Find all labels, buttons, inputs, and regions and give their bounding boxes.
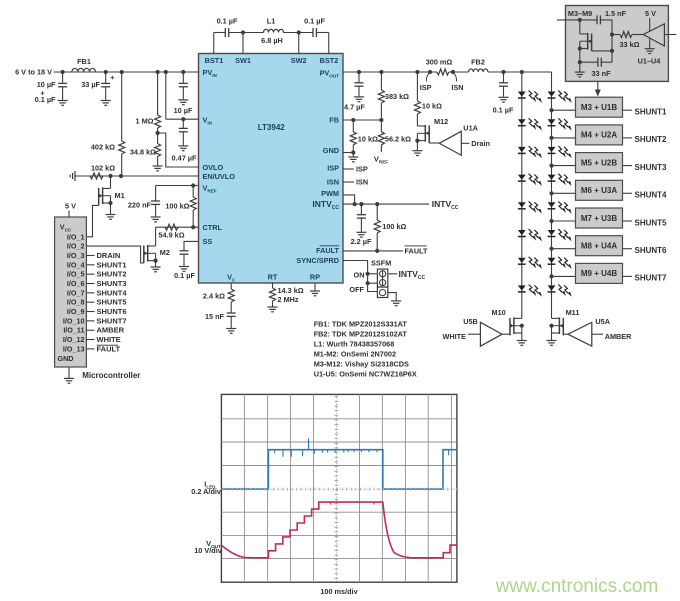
LED D8a <box>518 285 526 290</box>
svg-text:5 V: 5 V <box>645 9 656 18</box>
svg-text:INTVCC: INTVCC <box>399 269 426 281</box>
svg-text:WHITE: WHITE <box>442 332 466 341</box>
ground (sideways) <box>74 171 76 181</box>
microcontroller box <box>55 217 87 367</box>
svg-text:6 V to 18 V: 6 V to 18 V <box>15 68 52 77</box>
svg-text:M1-M2: OnSemi 2N7002: M1-M2: OnSemi 2N7002 <box>314 350 396 359</box>
capacitor 33nF <box>580 61 598 63</box>
svg-text:I/O_4: I/O_4 <box>67 260 85 269</box>
svg-text:SSFM: SSFM <box>371 258 391 267</box>
svg-text:4.7 µF: 4.7 µF <box>344 103 365 112</box>
resistor 56.2k <box>380 120 382 132</box>
svg-text:ON: ON <box>354 271 365 280</box>
svg-text:100 ms/div: 100 ms/div <box>320 587 358 596</box>
wire shunt tap 2 <box>549 136 553 140</box>
svg-text:U1A: U1A <box>463 123 478 132</box>
op-amp U1-U4 buffer <box>643 24 664 46</box>
transistor M10 <box>514 317 522 319</box>
svg-text:100 kΩ: 100 kΩ <box>382 222 406 231</box>
svg-text:SHUNT6: SHUNT6 <box>635 246 668 255</box>
transistor M12 <box>417 125 425 127</box>
node SHUNT3 <box>623 165 633 167</box>
ground RP <box>314 283 316 291</box>
svg-text:M5 + U2B: M5 + U2B <box>581 158 617 167</box>
capacitor 10uF/0.1uF input <box>58 82 67 84</box>
svg-text:FB: FB <box>329 116 339 125</box>
svg-text:I/O_2: I/O_2 <box>67 242 85 251</box>
svg-text:+: + <box>110 73 115 82</box>
svg-text:U5A: U5A <box>595 317 610 326</box>
node SHUNT4 (micro) <box>86 292 94 294</box>
ferrite bead FB2 <box>469 69 489 72</box>
inductor L1 6.8uH <box>264 29 284 32</box>
chart center horizontal graticule <box>221 488 457 490</box>
svg-text:DRAIN: DRAIN <box>97 251 121 260</box>
capacitor 220nF <box>155 186 157 202</box>
wire PWM to INTVCC <box>343 195 355 204</box>
IC LT3942 <box>199 54 344 284</box>
svg-text:1.5 nF: 1.5 nF <box>605 9 627 18</box>
svg-text:L1: L1 <box>267 17 276 26</box>
wire M2 gate to I/O_2 <box>86 246 143 263</box>
svg-text:383 kΩ: 383 kΩ <box>385 92 409 101</box>
svg-text:VREF: VREF <box>374 154 388 164</box>
svg-text:M9 + U4B: M9 + U4B <box>581 269 617 278</box>
node AMBER <box>592 333 603 335</box>
ground GND pin <box>343 152 353 154</box>
svg-text:EN/UVLO: EN/UVLO <box>203 172 236 181</box>
svg-text:ISN: ISN <box>451 83 463 92</box>
resistor 100k (FAULT pullup) <box>375 202 379 206</box>
resistor 10k (ISP) <box>416 72 418 101</box>
LED D3a <box>518 147 526 152</box>
node SHUNT6 (micro) <box>86 311 94 313</box>
trace ILED (blue) <box>221 450 457 489</box>
LED D6a <box>518 230 526 235</box>
svg-text:2.2 µF: 2.2 µF <box>351 237 372 246</box>
svg-text:FAULT: FAULT <box>316 246 340 255</box>
svg-text:FB1: FB1 <box>77 57 91 66</box>
node SHUNT7 (micro) <box>86 320 94 322</box>
node WHITE <box>468 333 480 335</box>
svg-text:SHUNT1: SHUNT1 <box>97 260 127 269</box>
LED D5b <box>548 202 556 207</box>
svg-text:10 kΩ: 10 kΩ <box>422 101 442 110</box>
node ISP kelvin <box>428 70 432 74</box>
trace VOUT (red) <box>221 502 457 558</box>
svg-text:SW1: SW1 <box>235 56 251 65</box>
svg-text:M10: M10 <box>491 308 505 317</box>
node SHUNT4 <box>623 192 633 194</box>
node SHUNT1 (micro) <box>86 264 94 266</box>
svg-text:SHUNT4: SHUNT4 <box>635 191 668 200</box>
LED D4b <box>548 175 556 180</box>
capacitor 0.1uF (SS) <box>184 241 199 250</box>
svg-text:2.4 kΩ: 2.4 kΩ <box>203 292 225 301</box>
LED D4a <box>518 175 526 180</box>
svg-text:0.1 µF: 0.1 µF <box>304 17 325 26</box>
svg-text:1 MΩ: 1 MΩ <box>135 117 153 126</box>
node SHUNT1 <box>623 109 633 111</box>
wire PVOUT rail <box>343 71 437 73</box>
svg-text:10 µF: 10 µF <box>174 106 193 115</box>
shunt block M8+U <box>576 236 623 256</box>
svg-text:M12: M12 <box>434 117 448 126</box>
shunt block M9+U <box>576 263 623 283</box>
svg-text:I/O_6: I/O_6 <box>67 279 85 288</box>
svg-text:www.cntronics.com: www.cntronics.com <box>495 576 659 597</box>
node ISN stub <box>343 181 354 183</box>
op-amp U5A buffer <box>563 333 568 335</box>
resistor 402k <box>120 70 124 74</box>
svg-text:M8 + U4A: M8 + U4A <box>581 242 617 251</box>
svg-text:Microcontroller: Microcontroller <box>82 371 140 380</box>
wire FAULT <box>343 250 403 252</box>
svg-text:0.1 µF: 0.1 µF <box>493 106 514 115</box>
svg-text:ISP: ISP <box>327 164 339 173</box>
svg-text:0.1 µF: 0.1 µF <box>174 271 195 280</box>
svg-text:M7 + U3B: M7 + U3B <box>581 214 617 223</box>
resistor 33k <box>610 32 614 36</box>
resistor 34.8k <box>157 133 159 144</box>
svg-text:U5B: U5B <box>463 317 478 326</box>
svg-text:SW2: SW2 <box>291 56 307 65</box>
node A divider mid <box>156 131 160 135</box>
svg-text:FB2: FB2 <box>471 58 485 67</box>
wire M1 gate to I/O_1 <box>86 205 98 236</box>
shunt block M5+U <box>576 153 623 173</box>
svg-text:0.1 µF: 0.1 µF <box>217 17 238 26</box>
svg-text:SHUNT5: SHUNT5 <box>97 298 127 307</box>
LED D7a <box>518 258 526 263</box>
node SHUNT6 <box>623 248 633 250</box>
svg-text:M3–M9: M3–M9 <box>568 9 592 18</box>
LED D7b <box>548 258 556 263</box>
wire jumper to INTVCC <box>388 273 398 275</box>
LED D8b <box>548 285 556 290</box>
svg-text:Drain: Drain <box>471 139 490 148</box>
shunt block M7+U <box>576 208 623 228</box>
svg-text:M6 + U3A: M6 + U3A <box>581 186 617 195</box>
resistor 2.4k + capacitor 15nF (VC) <box>230 283 232 289</box>
wire shunt tap 1 <box>549 108 553 112</box>
shunt block M6+U <box>576 180 623 200</box>
svg-text:10 kΩ: 10 kΩ <box>358 134 378 143</box>
svg-text:SHUNT2: SHUNT2 <box>97 270 127 279</box>
capacitor 0.1uF (BST2) <box>312 28 314 37</box>
svg-text:300 mΩ: 300 mΩ <box>426 58 453 67</box>
svg-text:33 µF: 33 µF <box>81 80 100 89</box>
ferrite bead FB1 <box>72 68 96 72</box>
svg-text:M3-M12: Vishay Si2318CDS: M3-M12: Vishay Si2318CDS <box>314 360 409 369</box>
svg-text:10 V/div: 10 V/div <box>194 546 223 555</box>
svg-text:BST1: BST1 <box>205 56 224 65</box>
svg-text:SHUNT4: SHUNT4 <box>97 288 128 297</box>
transistor M11 <box>552 317 560 319</box>
svg-text:SHUNT1: SHUNT1 <box>635 108 668 117</box>
svg-text:CTRL: CTRL <box>203 223 223 232</box>
svg-text:SHUNT3: SHUNT3 <box>97 279 127 288</box>
LED D5a <box>518 202 526 207</box>
svg-text:ISP: ISP <box>420 83 432 92</box>
svg-text:M4 + U2A: M4 + U2A <box>581 131 617 140</box>
svg-text:SHUNT3: SHUNT3 <box>635 163 668 172</box>
wire gate net <box>592 50 612 52</box>
svg-text:SHUNT7: SHUNT7 <box>635 274 668 283</box>
svg-text:0.47 µF: 0.47 µF <box>172 154 197 163</box>
node SHUNT3 (micro) <box>86 283 94 285</box>
svg-text:SHUNT5: SHUNT5 <box>635 218 668 227</box>
svg-text:ISP: ISP <box>356 165 368 174</box>
svg-text:RP: RP <box>310 273 320 282</box>
LED D6b <box>548 230 556 235</box>
svg-text:I/O_8: I/O_8 <box>67 298 85 307</box>
svg-text:AMBER: AMBER <box>97 326 125 335</box>
node DRAIN (micro) <box>86 254 94 256</box>
svg-text:M2: M2 <box>160 248 170 257</box>
svg-text:0.2 A/div: 0.2 A/div <box>191 487 222 496</box>
svg-text:SHUNT6: SHUNT6 <box>97 307 127 316</box>
svg-text:I/O_7: I/O_7 <box>67 288 85 297</box>
svg-text:I/O_9: I/O_9 <box>67 307 85 316</box>
wire shunt tap 7 <box>549 274 553 278</box>
wire INTVCC <box>343 203 429 205</box>
svg-text:U1–U4: U1–U4 <box>638 57 662 66</box>
shunt block M3+U <box>576 97 623 117</box>
node AMBER (micro) <box>86 329 94 331</box>
svg-text:SHUNT2: SHUNT2 <box>635 135 668 144</box>
svg-text:SS: SS <box>203 237 213 246</box>
svg-text:I/O_5: I/O_5 <box>67 270 85 279</box>
resistor 100k (VREF-CTRL) <box>192 186 194 198</box>
transistor M2 <box>155 227 157 246</box>
wire gate input <box>557 19 597 21</box>
wire shunt tap 3 <box>549 164 553 168</box>
svg-text:SYNC/SPRD: SYNC/SPRD <box>296 256 339 265</box>
capacitor 0.47uF <box>181 117 185 121</box>
svg-text:I/O_10: I/O_10 <box>63 316 85 325</box>
svg-text:M11: M11 <box>566 308 580 317</box>
node FAULT (micro) <box>86 348 94 350</box>
wire CTRL <box>191 225 195 229</box>
svg-text:33 nF: 33 nF <box>591 69 611 78</box>
wire FB <box>343 119 381 121</box>
LED D1b <box>548 92 556 97</box>
wire BST1 riser <box>213 33 215 54</box>
svg-text:WHITE: WHITE <box>97 335 121 344</box>
transistor M3-M9 (rep) <box>579 20 581 34</box>
wire box to SHUNT1 arrow <box>597 81 599 90</box>
resistor 300mOhm sense <box>415 70 419 74</box>
svg-text:RT: RT <box>268 273 278 282</box>
resistor 1M <box>156 70 160 74</box>
node SHUNT5 <box>623 220 633 222</box>
chart frame <box>221 394 457 582</box>
svg-text:M1: M1 <box>115 191 125 200</box>
node SHUNT7 <box>623 275 633 277</box>
svg-text:U1-U5: OnSemi NC7WZ16P6X: U1-U5: OnSemi NC7WZ16P6X <box>314 370 417 379</box>
resistor 54.9k <box>165 224 178 230</box>
node Drain <box>461 142 469 144</box>
capacitor 1.5nF <box>596 15 598 24</box>
svg-text:15 nF: 15 nF <box>205 312 225 321</box>
jumper JP1 SSFM <box>377 269 387 287</box>
svg-text:SHUNT7: SHUNT7 <box>97 316 127 325</box>
svg-text:6.8 µH: 6.8 µH <box>261 36 283 45</box>
wire node A to OVLO <box>158 133 199 167</box>
svg-text:34.8 kΩ: 34.8 kΩ <box>130 148 156 157</box>
svg-text:OVLO: OVLO <box>203 163 224 172</box>
wire shunt tap 5 <box>549 219 553 223</box>
svg-text:BST2: BST2 <box>320 56 339 65</box>
svg-text:PWM: PWM <box>321 189 339 198</box>
svg-text:I/O_11: I/O_11 <box>63 326 84 335</box>
svg-text:FAULT: FAULT <box>97 344 121 353</box>
svg-text:FAULT: FAULT <box>405 246 429 255</box>
chart center graticules <box>335 394 337 582</box>
svg-text:OFF: OFF <box>349 285 364 294</box>
chart grid <box>243 394 245 582</box>
node SHUNT5 (micro) <box>86 301 94 303</box>
capacitor 4.7uF <box>357 70 361 74</box>
LED D2b <box>548 119 556 124</box>
svg-text:ISN: ISN <box>327 178 339 187</box>
LED D3b <box>548 147 556 152</box>
svg-text:M3 + U1B: M3 + U1B <box>581 103 617 112</box>
resistor 383k <box>379 70 383 74</box>
wire LED column 1 <box>520 70 524 74</box>
op-amp U1A buffer <box>429 142 439 144</box>
resistor 14.3k 2MHz (RT) <box>272 283 274 288</box>
resistor 102k <box>90 173 103 179</box>
wire EN/UVLO <box>75 175 199 177</box>
wire shunt tap 6 <box>549 247 553 251</box>
svg-text:FB1: TDK MPZ2012S331AT: FB1: TDK MPZ2012S331AT <box>314 320 408 329</box>
svg-text:2 MHz: 2 MHz <box>278 295 299 304</box>
svg-text:AMBER: AMBER <box>605 332 632 341</box>
wire shunt tap 4 <box>549 191 553 195</box>
wire LED column 2 <box>551 72 553 318</box>
svg-text:0.1 µF: 0.1 µF <box>35 95 56 104</box>
resistor 10k (FB) <box>352 120 354 132</box>
node ISP stub <box>343 168 354 170</box>
svg-text:GND: GND <box>58 354 74 363</box>
svg-text:L1: Wurth 78438357068: L1: Wurth 78438357068 <box>314 340 395 349</box>
svg-text:33 kΩ: 33 kΩ <box>619 40 639 49</box>
ground jumper off <box>388 293 396 301</box>
svg-text:LT3942: LT3942 <box>258 123 286 132</box>
svg-text:GND: GND <box>323 146 339 155</box>
LED D1a <box>518 92 526 97</box>
capacitor 33uF <box>104 70 108 74</box>
svg-text:ISN: ISN <box>356 178 368 187</box>
svg-text:54.9 kΩ: 54.9 kΩ <box>158 230 184 239</box>
node ISN kelvin <box>451 70 455 74</box>
svg-text:I/O_13: I/O_13 <box>63 344 85 353</box>
wire BST2 riser <box>316 32 328 34</box>
svg-text:5 V: 5 V <box>65 202 76 211</box>
svg-text:I/O_1: I/O_1 <box>67 232 85 241</box>
svg-text:402 kΩ: 402 kΩ <box>91 143 115 152</box>
capacitor 0.1uF (LED rail) <box>501 70 505 74</box>
op-amp U5B buffer <box>502 333 510 335</box>
transistor M1 <box>108 174 112 178</box>
wire SW2 riser <box>284 32 314 34</box>
svg-text:14.3 kΩ: 14.3 kΩ <box>278 286 304 295</box>
capacitor 0.1uF (BST1) <box>224 28 226 37</box>
capacitor 10uF (VIN) <box>181 70 185 74</box>
svg-text:FB2: TDK MPZ2012S102AT: FB2: TDK MPZ2012S102AT <box>314 330 408 339</box>
ground micro GND <box>68 367 70 378</box>
LED D2a <box>518 119 526 124</box>
wire VREF <box>156 185 199 187</box>
svg-text:100 kΩ: 100 kΩ <box>165 202 189 211</box>
wire PVIN to VIN <box>164 70 168 74</box>
svg-text:I/O_12: I/O_12 <box>63 335 85 344</box>
svg-text:I/O_3: I/O_3 <box>67 251 85 260</box>
svg-text:220 nF: 220 nF <box>128 201 152 210</box>
svg-text:102 kΩ: 102 kΩ <box>91 163 115 172</box>
shunt block M4+U <box>576 125 623 145</box>
wire SYNC/SPRD to jumper <box>343 261 377 292</box>
svg-text:INTVCC: INTVCC <box>432 199 459 211</box>
capacitor 2.2uF <box>359 202 363 206</box>
svg-text:56.2 kΩ: 56.2 kΩ <box>385 134 411 143</box>
node WHITE (micro) <box>86 339 94 341</box>
wire SW1 riser <box>229 32 264 34</box>
node SHUNT2 <box>623 137 633 139</box>
node SHUNT2 (micro) <box>86 273 94 275</box>
shunt detail box M3-M9 <box>566 6 669 82</box>
